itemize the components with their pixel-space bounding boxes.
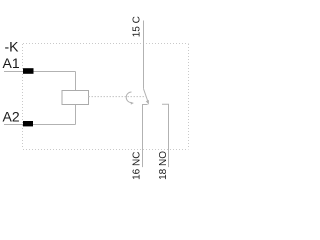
relay K boundary bottom edge: [23, 149, 189, 151]
svg-text:15 C: 15 C: [132, 16, 143, 37]
wire A1 vertical to coil top: [75, 72, 77, 91]
wire 15 common (vertical): [143, 21, 145, 89]
wire A2 horizontal: [4, 124, 76, 126]
relay K enclosure (dashed boundary): [23, 43, 189, 45]
svg-text:-K: -K: [5, 38, 20, 54]
relay K boundary right edge: [188, 44, 190, 149]
svg-text:A2: A2: [3, 108, 20, 124]
mechanical link (dashed): [89, 96, 146, 98]
coil K (rectangle): [62, 91, 89, 105]
wire 18 NO fixed contact: [162, 104, 169, 167]
actuation arc arrowhead: [131, 102, 134, 105]
svg-text:A1: A1: [3, 55, 20, 71]
wire A2 vertical to coil bottom: [75, 105, 77, 125]
relay K boundary left edge: [22, 44, 24, 149]
contact lever arrowhead: [146, 100, 149, 105]
svg-text:18 NO: 18 NO: [158, 151, 169, 180]
svg-text:16 NC: 16 NC: [132, 152, 143, 180]
actuation arc arrow: [126, 92, 131, 103]
terminal A1 (black block): [23, 68, 34, 74]
terminal A2 (black block): [23, 121, 33, 126]
contact lever: [144, 89, 148, 102]
wire A1 horizontal: [4, 71, 76, 73]
wire 16 NC fixed contact: [143, 105, 148, 168]
